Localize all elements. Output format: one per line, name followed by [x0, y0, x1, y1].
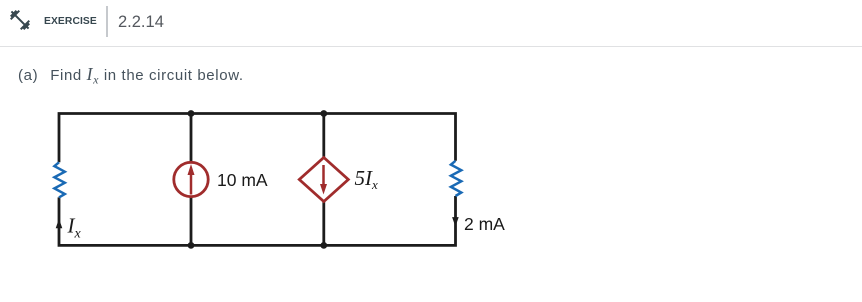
svg-text:2 mA: 2 mA — [464, 214, 505, 234]
header exercise number 2.2.14 — [118, 14, 164, 31]
wire: middle branch for 10 mA source — [190, 114, 193, 246]
node dot bottom-left junction — [188, 242, 195, 249]
node dot top-right junction — [320, 110, 327, 117]
problem statement — [18, 66, 244, 84]
current source U1 circle (10 mA) — [174, 162, 208, 196]
resistor left (blue zigzag) — [54, 162, 64, 197]
arrow 2 mA (down, on right rail) — [452, 217, 459, 227]
svg-text:Ix: Ix — [67, 214, 82, 242]
node dot bottom-right junction — [320, 242, 327, 249]
svg-text:5Ix: 5Ix — [355, 166, 379, 192]
resistor right (blue zigzag) — [451, 161, 461, 196]
wire: bottom loop (left rail below resistor + bottom rail + right rail below resistor) — [59, 196, 456, 245]
svg-text:10 mA: 10 mA — [217, 170, 268, 190]
wire: top-left corner loop (left rail above resistor + top rail + right rail above resistor) — [59, 114, 456, 163]
dependent source arrow (down) — [322, 165, 325, 185]
header exercise icon (dumbbell) — [8, 8, 32, 32]
header label EXERCISE — [44, 17, 97, 27]
dependent source diamond (5Ix) — [299, 158, 348, 202]
wire: middle branch for dependent source — [322, 114, 325, 246]
arrow Ix (up, on left rail) — [56, 219, 63, 229]
header divider — [106, 6, 108, 37]
current source U1 arrow (up) — [190, 174, 193, 195]
node dot top-left junction — [188, 110, 195, 117]
header bottom rule — [0, 46, 862, 47]
